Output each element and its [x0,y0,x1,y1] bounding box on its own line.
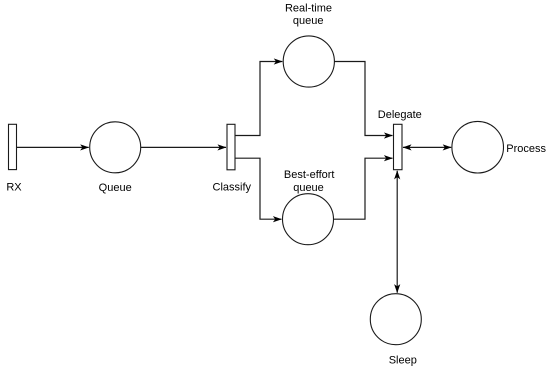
svg-text:Process: Process [506,143,546,155]
svg-text:Classify: Classify [213,182,252,194]
svg-text:Real-time: Real-time [285,2,332,14]
svg-text:Best-effort: Best-effort [284,169,335,181]
svg-text:Queue: Queue [99,182,132,194]
svg-text:Sleep: Sleep [389,355,417,367]
svg-text:queue: queue [293,15,324,27]
svg-text:RX: RX [6,182,22,194]
svg-text:Delegate: Delegate [378,109,422,121]
svg-text:queue: queue [293,182,324,194]
